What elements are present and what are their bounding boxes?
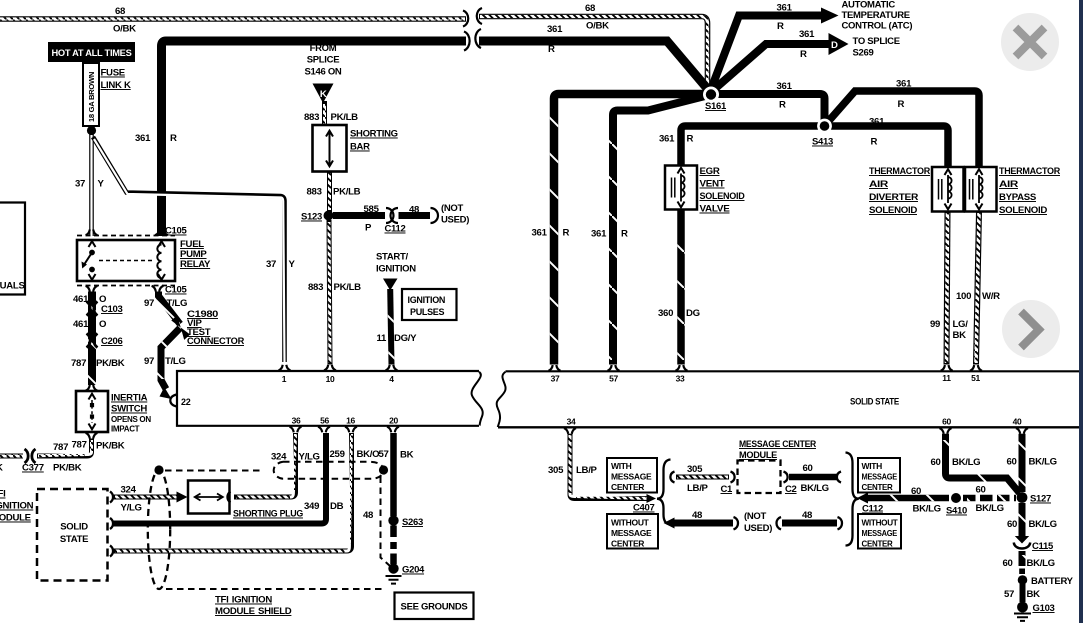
label MESSAGE CENTER MODULE <box>739 439 816 461</box>
svg-text:883: 883 <box>307 187 322 198</box>
WITHOUT MESSAGE CENTER note box (right) <box>858 514 901 549</box>
pin 22 connector on left edge <box>170 395 190 408</box>
svg-text:787: 787 <box>53 442 68 453</box>
pin 1 <box>279 365 291 384</box>
ground G103 <box>1014 602 1055 621</box>
wire 48 not used (left) <box>664 517 739 530</box>
wire 361 R main feed left segment <box>162 32 470 237</box>
brace right (C112 alternatives) <box>846 453 859 546</box>
svg-text:37: 37 <box>551 374 560 384</box>
wire 305 LB/P to message center module C1 (hatched) <box>670 472 734 483</box>
EEC solid state module box (right) <box>497 371 1080 427</box>
connector C115 <box>1014 536 1054 552</box>
label 361 R (bypass wire) <box>896 79 912 111</box>
wire 259 BK/O module to pin 16 (hatched) <box>113 433 352 551</box>
svg-text:O: O <box>99 319 107 330</box>
svg-text:C112: C112 <box>862 504 883 515</box>
IGNITION PULSES note box <box>402 289 457 320</box>
thermactor air diverter solenoid box <box>932 167 964 212</box>
svg-text:FROM: FROM <box>310 43 337 54</box>
shield dashed link to stadium <box>165 470 261 472</box>
svg-text:SWITCH: SWITCH <box>111 404 147 415</box>
pin 36 <box>290 416 302 433</box>
svg-text:O/BK: O/BK <box>586 21 609 32</box>
labels 305 LB/P C1 <box>687 464 733 495</box>
wire 361 R S161 to S413 <box>711 94 825 125</box>
label 361 R (pin 37 wire) <box>532 228 570 239</box>
pin 37 <box>549 365 561 383</box>
svg-text:361: 361 <box>777 3 793 14</box>
wire 361 R S413 to thermactor diverter <box>829 126 948 166</box>
UI close button <box>1001 13 1059 71</box>
svg-text:305: 305 <box>687 464 703 475</box>
label 461 O (upper) <box>73 294 107 305</box>
svg-text:MESSAGE CENTER: MESSAGE CENTER <box>739 439 816 450</box>
svg-text:CENTER: CENTER <box>611 539 644 549</box>
svg-text:VENT: VENT <box>700 179 725 190</box>
svg-text:22: 22 <box>181 397 191 407</box>
svg-text:4: 4 <box>389 374 394 384</box>
splice S263 <box>388 515 423 528</box>
svg-text:CONNECTOR: CONNECTOR <box>187 336 244 347</box>
shorting plug box <box>188 481 230 514</box>
svg-text:18 GA BROWN: 18 GA BROWN <box>87 72 96 122</box>
label 259 BK/O <box>330 449 381 460</box>
svg-text:585: 585 <box>364 204 380 215</box>
label 361 R feed vertical <box>135 133 177 144</box>
label 324 Y/LG (at module) <box>121 485 142 514</box>
wire 60 BK/LG pin 60 to S127 <box>946 434 1020 493</box>
svg-text:CENTER: CENTER <box>611 482 644 492</box>
svg-text:VALVE: VALVE <box>700 204 731 215</box>
svg-text:11: 11 <box>942 373 951 383</box>
label 60 BK/LG (C112-S410) <box>911 486 941 515</box>
splice S161 <box>705 89 727 112</box>
pin 11 <box>941 365 953 383</box>
shield stadium around pin wires (dashed) <box>274 462 388 479</box>
svg-text:PK/LB: PK/LB <box>334 282 362 293</box>
svg-text:W/R: W/R <box>982 291 1000 302</box>
svg-text:DG/Y: DG/Y <box>394 333 417 344</box>
label 60 BK/LG (pin 40 wire) <box>1007 457 1057 468</box>
svg-text:C407: C407 <box>633 503 655 514</box>
fuel pump relay box <box>77 240 175 281</box>
pin 60 <box>940 417 952 434</box>
svg-text:IGNITION: IGNITION <box>408 295 446 305</box>
svg-text:48: 48 <box>802 510 813 521</box>
label 60 BK/LG (S127-C115) <box>1007 519 1057 530</box>
label SHORTING BAR <box>350 129 398 153</box>
label 68 O/BK right <box>585 3 609 32</box>
wire 97 T/LG zigzag from relay to pin 22 <box>159 292 181 400</box>
svg-text:LINK K: LINK K <box>101 80 132 91</box>
svg-text:G103: G103 <box>1033 603 1055 614</box>
svg-text:361: 361 <box>896 79 912 90</box>
label 37 Y upper <box>75 179 105 190</box>
label 360 DG <box>658 308 700 319</box>
svg-text:60: 60 <box>1007 457 1017 468</box>
label THERMACTOR AIR BYPASS SOLENOID <box>999 166 1060 216</box>
svg-text:PK/BK: PK/BK <box>96 358 125 369</box>
svg-text:TO SPLICE: TO SPLICE <box>853 36 900 47</box>
svg-text:C103: C103 <box>101 304 123 315</box>
wire 48 to (NOT USED) <box>399 208 439 223</box>
svg-text:349: 349 <box>304 501 319 512</box>
splice S413 junction dot overlay <box>817 119 832 134</box>
brace left (C407 alternatives) <box>657 460 671 525</box>
label TO SPLICE S269 <box>853 36 900 59</box>
svg-text:1: 1 <box>282 374 287 384</box>
svg-text:100: 100 <box>956 291 971 302</box>
svg-text:BK/LG: BK/LG <box>1029 457 1057 468</box>
svg-text:60: 60 <box>976 485 986 496</box>
wire 100 W/R bypass to pin 51 (hatched) <box>976 212 979 365</box>
labels C2 60 BK/LG <box>785 463 829 495</box>
svg-text:RELAY: RELAY <box>180 259 211 270</box>
svg-text:BATTERY: BATTERY <box>1031 576 1074 587</box>
svg-text:60: 60 <box>931 457 941 468</box>
svg-text:57: 57 <box>379 449 389 460</box>
EGR vent solenoid valve box <box>665 166 697 210</box>
svg-text:97: 97 <box>144 356 154 367</box>
svg-text:HOT AT ALL TIMES: HOT AT ALL TIMES <box>52 48 133 59</box>
message center module box (dashed) <box>738 461 781 494</box>
svg-text:S146 ON: S146 ON <box>305 67 342 78</box>
svg-text:INERTIA: INERTIA <box>111 393 148 404</box>
shield bottom dashed line <box>166 588 384 590</box>
svg-text:AUTOMATIC: AUTOMATIC <box>842 0 896 11</box>
label 361 R (pin 57 wire) <box>591 229 628 240</box>
svg-text:MESSAGE: MESSAGE <box>862 528 898 538</box>
svg-text:S413: S413 <box>812 137 833 148</box>
ground G204 <box>386 563 426 583</box>
svg-text:THERMACTOR: THERMACTOR <box>869 166 930 177</box>
label 883 PK/LB (middle) <box>307 187 361 198</box>
svg-text:TFI IGNITION: TFI IGNITION <box>215 595 272 606</box>
label EGR VENT SOLENOID VALVE <box>700 166 745 215</box>
svg-text:R: R <box>563 228 570 239</box>
svg-text:361: 361 <box>799 29 815 40</box>
wire 324 Y/LG shorting plug to pin 36 (hatched) <box>227 433 295 503</box>
wire 361 R S161 to pin 57 <box>613 95 711 365</box>
label 324 Y/LG (at pin 36) <box>271 452 320 463</box>
wire 349 DB module to pin 56 <box>113 433 326 524</box>
svg-text:BK/LG: BK/LG <box>913 504 941 515</box>
label 68 O/BK left <box>113 6 136 35</box>
thermactor air bypass solenoid box <box>965 167 997 212</box>
label TFI IGNITION MODULE SHIELD <box>215 595 292 618</box>
inertia switch pin horns bottom <box>86 433 98 439</box>
svg-text:MESSAGE: MESSAGE <box>611 472 652 482</box>
connector C206 <box>87 334 123 348</box>
svg-text:S410: S410 <box>946 506 967 517</box>
svg-text:PK/BK: PK/BK <box>53 463 82 474</box>
label FUEL PUMP RELAY <box>180 239 211 270</box>
wire 48 not used (right) <box>777 510 843 530</box>
svg-text:OPENS ON: OPENS ON <box>111 415 151 424</box>
svg-text:TFI: TFI <box>0 489 6 500</box>
svg-text:AIR: AIR <box>869 179 888 190</box>
shield drain wire 48 (dashed) to G204 <box>363 477 390 567</box>
svg-text:SOLENOID: SOLENOID <box>700 191 745 202</box>
splice S410 <box>946 493 967 517</box>
svg-text:361: 361 <box>777 81 793 92</box>
wire 361 R S413 to thermactor bypass <box>827 91 980 166</box>
svg-text:C2: C2 <box>785 484 797 495</box>
relay pin horns top <box>86 230 168 236</box>
label 361 R (EGR wire) <box>659 134 694 145</box>
label AUTOMATIC TEMPERATURE CONTROL (ATC) <box>842 0 913 32</box>
svg-text:C115: C115 <box>1032 541 1054 552</box>
svg-text:T/LG: T/LG <box>165 356 186 367</box>
wire C112 to S410 <box>857 493 949 504</box>
relay pin horns bottom <box>86 286 164 292</box>
pin 57 <box>608 365 620 383</box>
svg-text:BK/O: BK/O <box>357 449 381 460</box>
wire 60 BK/LG pin 40 to S127 <box>1019 434 1026 492</box>
svg-text:361: 361 <box>532 228 548 239</box>
svg-text:361: 361 <box>591 229 607 240</box>
wire 883 PK/LB shorting bar to S123 (hatched) <box>327 172 332 216</box>
inertia switch pin horns top <box>86 385 98 391</box>
SEE GROUNDS note box <box>395 593 474 620</box>
labels 585 P C112 48 (NOT USED) <box>364 203 470 235</box>
battery node <box>1018 569 1074 588</box>
svg-text:361: 361 <box>547 24 563 35</box>
svg-text:EGR: EGR <box>700 166 720 177</box>
label 57 BK <box>379 449 414 461</box>
svg-text:S123: S123 <box>301 212 322 223</box>
svg-text:361: 361 <box>659 134 675 145</box>
pin 33 <box>676 365 688 383</box>
label 60 BK/LG (pin 60 wire) <box>931 457 981 468</box>
start ignition feed triangle <box>383 279 398 291</box>
labels 787 787 PK/BK (below inertia) <box>53 440 125 454</box>
svg-text:20: 20 <box>389 416 398 426</box>
label FROM SPLICE S146 ON <box>305 43 342 78</box>
svg-text:R: R <box>548 44 555 55</box>
svg-text:MODULE: MODULE <box>0 513 32 524</box>
inertia switch box <box>76 391 108 432</box>
connector C377 <box>25 449 36 463</box>
svg-text:S263: S263 <box>402 517 423 528</box>
svg-text:WITHOUT: WITHOUT <box>862 518 899 528</box>
svg-text:S269: S269 <box>853 48 874 59</box>
label 11 DG/Y <box>377 333 418 344</box>
wire 787 PK/BK to C377 (hatched) <box>0 439 92 457</box>
relay pin arrows inside <box>89 241 166 280</box>
svg-text:60: 60 <box>1007 519 1017 530</box>
WITH MESSAGE CENTER note box (right) <box>858 458 900 493</box>
svg-text:48: 48 <box>409 205 420 216</box>
svg-text:CENTER: CENTER <box>862 539 893 549</box>
svg-text:P: P <box>365 223 372 234</box>
svg-text:56: 56 <box>320 416 329 426</box>
shield ellipse around module wires (dashed) <box>148 465 170 589</box>
svg-text:R: R <box>687 134 694 145</box>
wire 585 P to C112 <box>333 208 394 223</box>
wire S263 to G204 (broken segments) <box>390 526 397 565</box>
right edge navy border <box>1079 0 1083 623</box>
connector C103 <box>87 302 123 316</box>
svg-text:SOLID: SOLID <box>60 522 88 533</box>
svg-text:G204: G204 <box>402 565 425 576</box>
svg-text:57: 57 <box>609 374 618 384</box>
svg-text:48: 48 <box>692 510 703 521</box>
svg-text:883: 883 <box>308 282 323 293</box>
svg-text:AIR: AIR <box>999 179 1018 190</box>
splice S123 <box>301 211 334 223</box>
wire 360 DG EGR to pin 33 <box>677 210 685 365</box>
wire 461 O / 787 PK/BK vertical chain <box>88 292 96 386</box>
svg-text:10: 10 <box>326 374 335 384</box>
svg-text:LB/P: LB/P <box>576 465 598 476</box>
wire 37 Y branch to pin 1 <box>93 137 285 362</box>
UI next button <box>1002 300 1060 358</box>
labels 48 (NOT USED) <box>692 510 772 534</box>
wire 60 BK/LG S127 to C115 <box>1019 503 1026 539</box>
wire 60 BK/LG C115 to battery node <box>1019 551 1026 566</box>
label 60 BK/LG (S410-S127) <box>976 485 1004 515</box>
svg-text:C112: C112 <box>385 224 406 235</box>
pin 40 <box>1013 417 1028 434</box>
label 60 BK/LG (C115-battery) <box>1003 558 1055 569</box>
svg-text:(NOT: (NOT <box>744 511 767 522</box>
relay switch contacts <box>82 250 95 273</box>
svg-text:PK/LB: PK/LB <box>333 187 361 198</box>
label 97 T/LG lower <box>144 356 186 367</box>
label 461 O (lower) <box>73 319 107 330</box>
svg-text:34: 34 <box>567 417 576 427</box>
splice S161 junction dot overlay <box>703 87 719 103</box>
label 305 LB/P (pin 34 wire) <box>548 465 598 476</box>
HOT AT ALL TIMES label box <box>48 42 135 62</box>
wire 57 BK pin 20 to S263 <box>390 433 397 516</box>
module connector caps <box>110 492 113 557</box>
pin 10 <box>324 365 336 384</box>
wire 361 R S413 to EGR solenoid <box>681 126 820 166</box>
svg-text:97: 97 <box>144 298 154 309</box>
label 100 W/R <box>956 291 1000 302</box>
svg-text:360: 360 <box>658 308 673 319</box>
svg-text:C206: C206 <box>101 336 123 347</box>
svg-text:SPLICE: SPLICE <box>307 55 340 66</box>
svg-text:60: 60 <box>1003 558 1013 569</box>
svg-text:Y: Y <box>289 259 296 270</box>
svg-text:259: 259 <box>330 449 345 460</box>
svg-text:11: 11 <box>377 333 388 344</box>
svg-text:37: 37 <box>75 179 85 190</box>
label 361 R (ATC wire) <box>777 3 793 33</box>
label 361 R (S161-S413) <box>777 81 793 111</box>
svg-text:BK/LG: BK/LG <box>976 503 1004 514</box>
splice symbol D (triangle) <box>829 33 849 55</box>
svg-text:C377: C377 <box>22 463 44 474</box>
svg-text:68: 68 <box>585 3 596 14</box>
svg-text:IGNITION: IGNITION <box>376 264 416 275</box>
svg-text:PK/BK: PK/BK <box>96 441 125 452</box>
svg-text:TEMPERATURE: TEMPERATURE <box>842 10 910 21</box>
label THERMACTOR AIR DIVERTER SOLENOID <box>869 166 930 216</box>
svg-text:33: 33 <box>676 374 685 384</box>
svg-text:51: 51 <box>971 373 980 383</box>
label 97 T/LG upper <box>144 298 187 309</box>
connector C105 dashed line (top of relay) <box>77 226 188 237</box>
label 99 LG/ BK <box>930 319 968 341</box>
svg-text:STATE: STATE <box>60 534 88 545</box>
svg-text:68: 68 <box>115 6 126 17</box>
wire S410 to S127 (hatched segments) <box>963 495 1016 502</box>
svg-text:R: R <box>898 99 905 110</box>
wire 361 R S161 to ATC arrow <box>710 8 839 93</box>
svg-text:SOLID STATE: SOLID STATE <box>850 397 899 407</box>
connector C112 break <box>391 208 398 223</box>
splice symbol K (triangle) <box>313 84 334 104</box>
svg-text:C1: C1 <box>721 484 734 495</box>
svg-text:36: 36 <box>292 416 301 426</box>
svg-text:BK: BK <box>1027 589 1041 600</box>
svg-text:IGNITION: IGNITION <box>0 501 34 512</box>
svg-text:USED): USED) <box>441 215 469 226</box>
svg-text:R: R <box>779 100 786 111</box>
svg-text:S161: S161 <box>705 101 727 112</box>
svg-text:WITH: WITH <box>611 461 632 471</box>
svg-text:BK/LG: BK/LG <box>1027 558 1055 569</box>
splice S413 <box>812 121 833 147</box>
svg-text:BK/LG: BK/LG <box>952 457 980 468</box>
svg-text:Y/LG: Y/LG <box>121 503 142 514</box>
label INERTIA SWITCH / OPENS ON IMPACT <box>111 393 151 434</box>
svg-text:40: 40 <box>1013 417 1022 427</box>
svg-text:C105: C105 <box>165 285 188 296</box>
WITHOUT MESSAGE CENTER note box (left) <box>607 514 658 549</box>
svg-text:361: 361 <box>135 133 151 144</box>
label FUSE LINK K <box>101 68 132 92</box>
svg-text:FUSE: FUSE <box>101 68 126 79</box>
svg-text:SEE GROUNDS: SEE GROUNDS <box>401 602 468 613</box>
svg-text:R: R <box>777 21 784 32</box>
label 361 R (D wire) <box>799 29 815 60</box>
label 361 R (diverter wire) <box>869 117 885 148</box>
svg-text:R: R <box>871 137 878 148</box>
wire 883 PK/LB from K to shorting bar (hatched) <box>322 101 327 125</box>
svg-text:BK: BK <box>400 450 414 461</box>
svg-text:BK: BK <box>953 330 967 341</box>
svg-text:SOLENOID: SOLENOID <box>999 205 1047 216</box>
wire 361 R S161 to splice D <box>710 44 829 93</box>
label 787 PK/BK (above inertia switch) <box>71 358 125 369</box>
svg-text:IMPACT: IMPACT <box>111 425 140 434</box>
svg-text:S127: S127 <box>1030 494 1051 505</box>
wire 11 DG/Y to pin 4 <box>390 289 391 365</box>
svg-text:SHORTING: SHORTING <box>350 129 398 140</box>
svg-text:60: 60 <box>942 417 951 427</box>
splice S127 <box>1017 492 1051 504</box>
connector C105 dashed line (bottom of relay) <box>77 285 188 296</box>
svg-text:BK/LG: BK/LG <box>801 483 829 494</box>
svg-text:60: 60 <box>911 486 921 497</box>
svg-text:MESSAGE: MESSAGE <box>611 528 652 538</box>
fuse link element (18 GA BROWN) <box>83 63 99 135</box>
svg-text:R: R <box>800 49 807 60</box>
svg-text:MODULE: MODULE <box>739 450 777 461</box>
pin 51 <box>970 365 982 383</box>
relay coil <box>157 245 161 279</box>
svg-text:R: R <box>621 229 628 240</box>
wire 68 O/BK left segment (hatched) <box>0 11 468 27</box>
label 883 PK/LB (lower) <box>308 282 361 293</box>
svg-text:DB: DB <box>330 501 344 512</box>
